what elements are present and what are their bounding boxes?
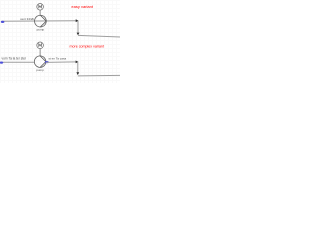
- wire: vertical segment of top elbow: [77, 21, 79, 33]
- arrowhead right, bottom elbow: [76, 61, 79, 64]
- wire: bottom outlet pipe to right edge: [78, 74, 120, 77]
- wire: bottom inlet pipe from left edge to pump: [1, 61, 35, 63]
- svg-text:easy variant: easy variant: [71, 4, 93, 9]
- svg-text:more complex variant: more complex variant: [70, 45, 104, 49]
- svg-text:vorn Ta la ter ster: vorn Ta la ter ster: [2, 56, 28, 60]
- node: blue source marker bottom-left: [0, 62, 3, 64]
- svg-text:vent 34/2b: vent 34/2b: [20, 17, 34, 21]
- svg-text:pump: pump: [36, 68, 44, 72]
- pump P2 (bottom): circle with outlet triangle: [34, 56, 46, 68]
- arrowhead right, top elbow: [76, 19, 79, 22]
- motor M2 (bottom): [37, 42, 44, 56]
- node: blue source marker at pump P2 outlet: [45, 61, 49, 63]
- motor M1 (top): [37, 4, 44, 16]
- wire: top outlet pipe to right edge (slightly sloped): [78, 35, 120, 37]
- wire: bottom pipe pump to elbow: [46, 61, 76, 64]
- wire: vertical segment of bottom elbow: [77, 62, 79, 73]
- arrowhead down, bottom elbow: [76, 72, 79, 75]
- node: blue source marker top-left: [1, 21, 5, 23]
- arrowhead down, top elbow: [77, 33, 80, 36]
- wire: top inlet pipe from left edge through pump to elbow: [2, 20, 76, 23]
- svg-text:st en Ta casa: st en Ta casa: [49, 56, 67, 60]
- svg-text:pump: pump: [37, 28, 45, 32]
- pump P1 (top): circle with outlet triangle: [35, 15, 47, 27]
